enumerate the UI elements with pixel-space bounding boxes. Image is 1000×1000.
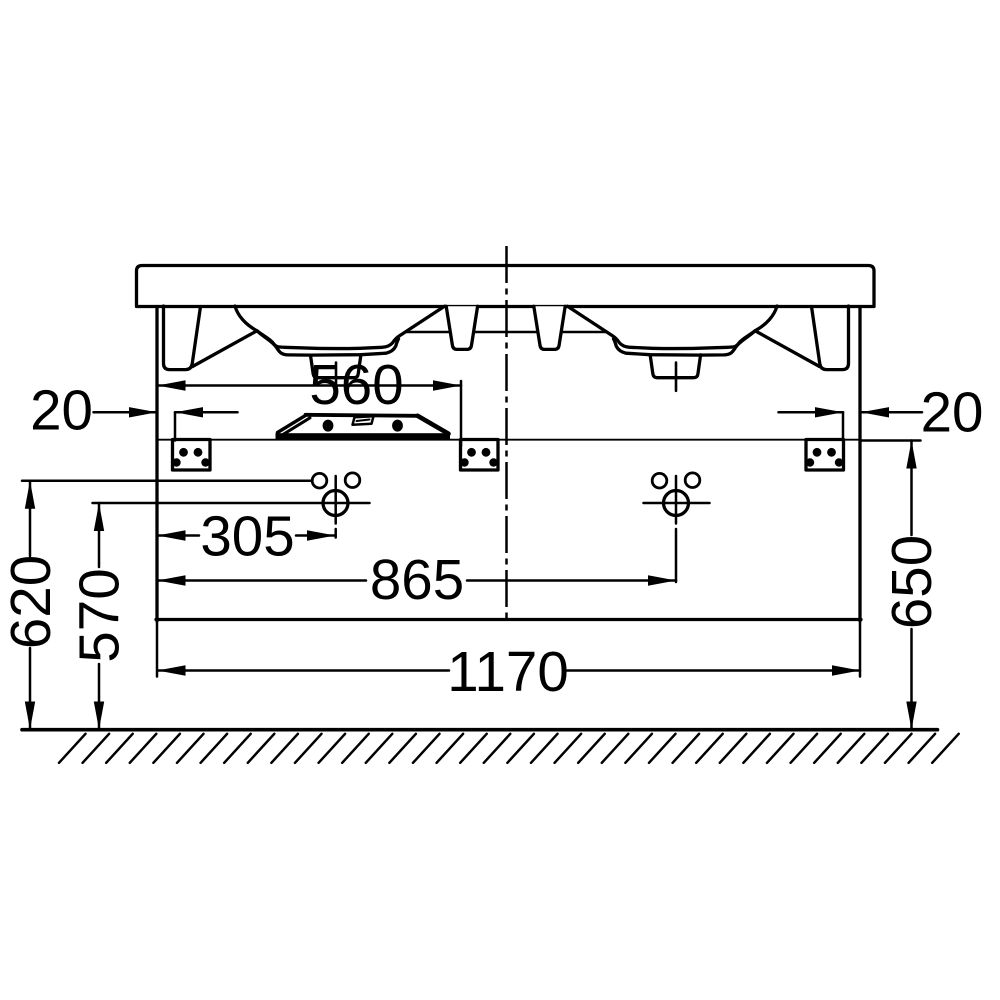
faucet group left small circle 2 <box>345 473 360 488</box>
bracket middle <box>460 440 498 471</box>
svg-text:20: 20 <box>30 379 93 442</box>
dim 560 right extension line <box>460 381 463 446</box>
dim 570 top arrow <box>94 503 104 531</box>
dim 20 left: tail line <box>94 411 158 414</box>
dim 570 vertical line <box>98 503 101 730</box>
dim 650 top arrow <box>906 441 916 469</box>
dim 570 bottom arrow <box>94 702 104 730</box>
dim 20 right: tail line <box>779 411 844 414</box>
dim 620 bottom arrow <box>25 702 35 730</box>
right diagonal bowl underside <box>756 331 820 367</box>
svg-text:1170: 1170 <box>447 640 569 703</box>
dim 20 left second tail <box>175 411 238 414</box>
left drain centerline <box>335 363 338 391</box>
faucet right small circle 1 <box>652 473 667 488</box>
basin back ledge <box>406 331 607 334</box>
cabinet left wall <box>155 307 158 622</box>
svg-text:305: 305 <box>200 505 294 568</box>
dim 20 right arrow a <box>815 407 843 417</box>
570 extension line / faucet left crosshair horizontal <box>93 502 370 505</box>
bracket left <box>172 440 210 471</box>
right leg <box>812 306 849 370</box>
mounting rail hole right <box>392 420 403 432</box>
svg-text:865: 865 <box>370 548 464 611</box>
svg-text:570: 570 <box>68 568 131 662</box>
ground hatching <box>59 734 959 763</box>
right bowl outer surface <box>614 332 755 355</box>
cabinet bottom <box>156 618 861 621</box>
cabinet right wall <box>858 307 861 622</box>
left bowl outer wall S-curve <box>235 306 257 331</box>
dim 20 left arrow a <box>129 407 157 417</box>
mounting rail left slope <box>278 415 307 433</box>
faucet right big circle <box>664 491 689 516</box>
dim 20 right extension line <box>842 412 845 440</box>
faucet right crosshair vertical + 865 extension <box>675 476 678 582</box>
dim 865 line <box>158 579 677 582</box>
right bowl inner surface <box>568 306 756 348</box>
centerline <box>505 246 508 621</box>
right center tab <box>534 306 565 349</box>
right bowl outer wall S-curve <box>755 306 777 331</box>
left bowl inner surface <box>257 306 445 348</box>
left bowl outer surface <box>258 332 399 355</box>
cabinet right wall extension <box>859 621 862 677</box>
left diagonal bowl underside <box>193 331 257 367</box>
left drain stub <box>311 355 361 378</box>
dim 305 line <box>158 534 336 537</box>
left center tab <box>446 306 477 349</box>
dim 20 left arrow b <box>175 407 203 417</box>
dim 560 right arrow <box>433 380 461 390</box>
mounting rail hole left <box>323 420 334 432</box>
dim 865 right arrow <box>648 575 676 585</box>
svg-text:620: 620 <box>0 555 62 649</box>
svg-text:20: 20 <box>921 381 984 444</box>
dim 1170 right arrow <box>832 665 860 675</box>
dim 650 vertical line <box>910 441 913 730</box>
dim 1170 left arrow <box>158 665 186 675</box>
cabinet left wall extension <box>156 621 159 677</box>
dim 650 extension line <box>861 439 921 442</box>
dim 20 left extension line <box>174 412 177 440</box>
dim 620 vertical line <box>29 481 32 730</box>
right drain stub <box>650 355 700 378</box>
mounting rail clip <box>353 416 374 425</box>
faucet group left big circle <box>323 491 348 516</box>
svg-text:650: 650 <box>880 535 943 629</box>
dim 650 bottom arrow <box>906 702 916 730</box>
dim 560 line <box>158 384 462 387</box>
faucet right crosshair horizontal <box>644 502 710 505</box>
faucet group left small circle 1 <box>312 473 327 488</box>
cabinet top line <box>157 439 860 441</box>
ground line <box>22 728 938 732</box>
dim 560 left arrow <box>158 380 186 390</box>
620 extension line <box>22 479 312 482</box>
dim 20 right arrow b <box>861 407 889 417</box>
dim 1170 line <box>158 669 861 672</box>
dim 305 right arrow <box>307 530 335 540</box>
dim 865 left arrow <box>158 575 186 585</box>
mounting rail clip line <box>357 420 370 422</box>
faucet right small circle 2 <box>685 473 700 488</box>
svg-text:560: 560 <box>309 353 403 416</box>
mounting rail left slope inner <box>283 418 311 435</box>
dim 20 right second tail <box>861 411 922 414</box>
countertop slab <box>137 266 875 307</box>
bracket right <box>806 440 844 471</box>
dim 620 top arrow <box>25 481 35 509</box>
mounting rail top edge <box>306 415 418 416</box>
faucet left crosshair vertical <box>334 476 337 538</box>
dim 305 left arrow <box>158 530 186 540</box>
mounting rail right slope <box>418 416 449 434</box>
mounting rail bottom bar <box>276 433 451 439</box>
right drain centerline <box>675 363 678 391</box>
left leg <box>164 306 201 370</box>
